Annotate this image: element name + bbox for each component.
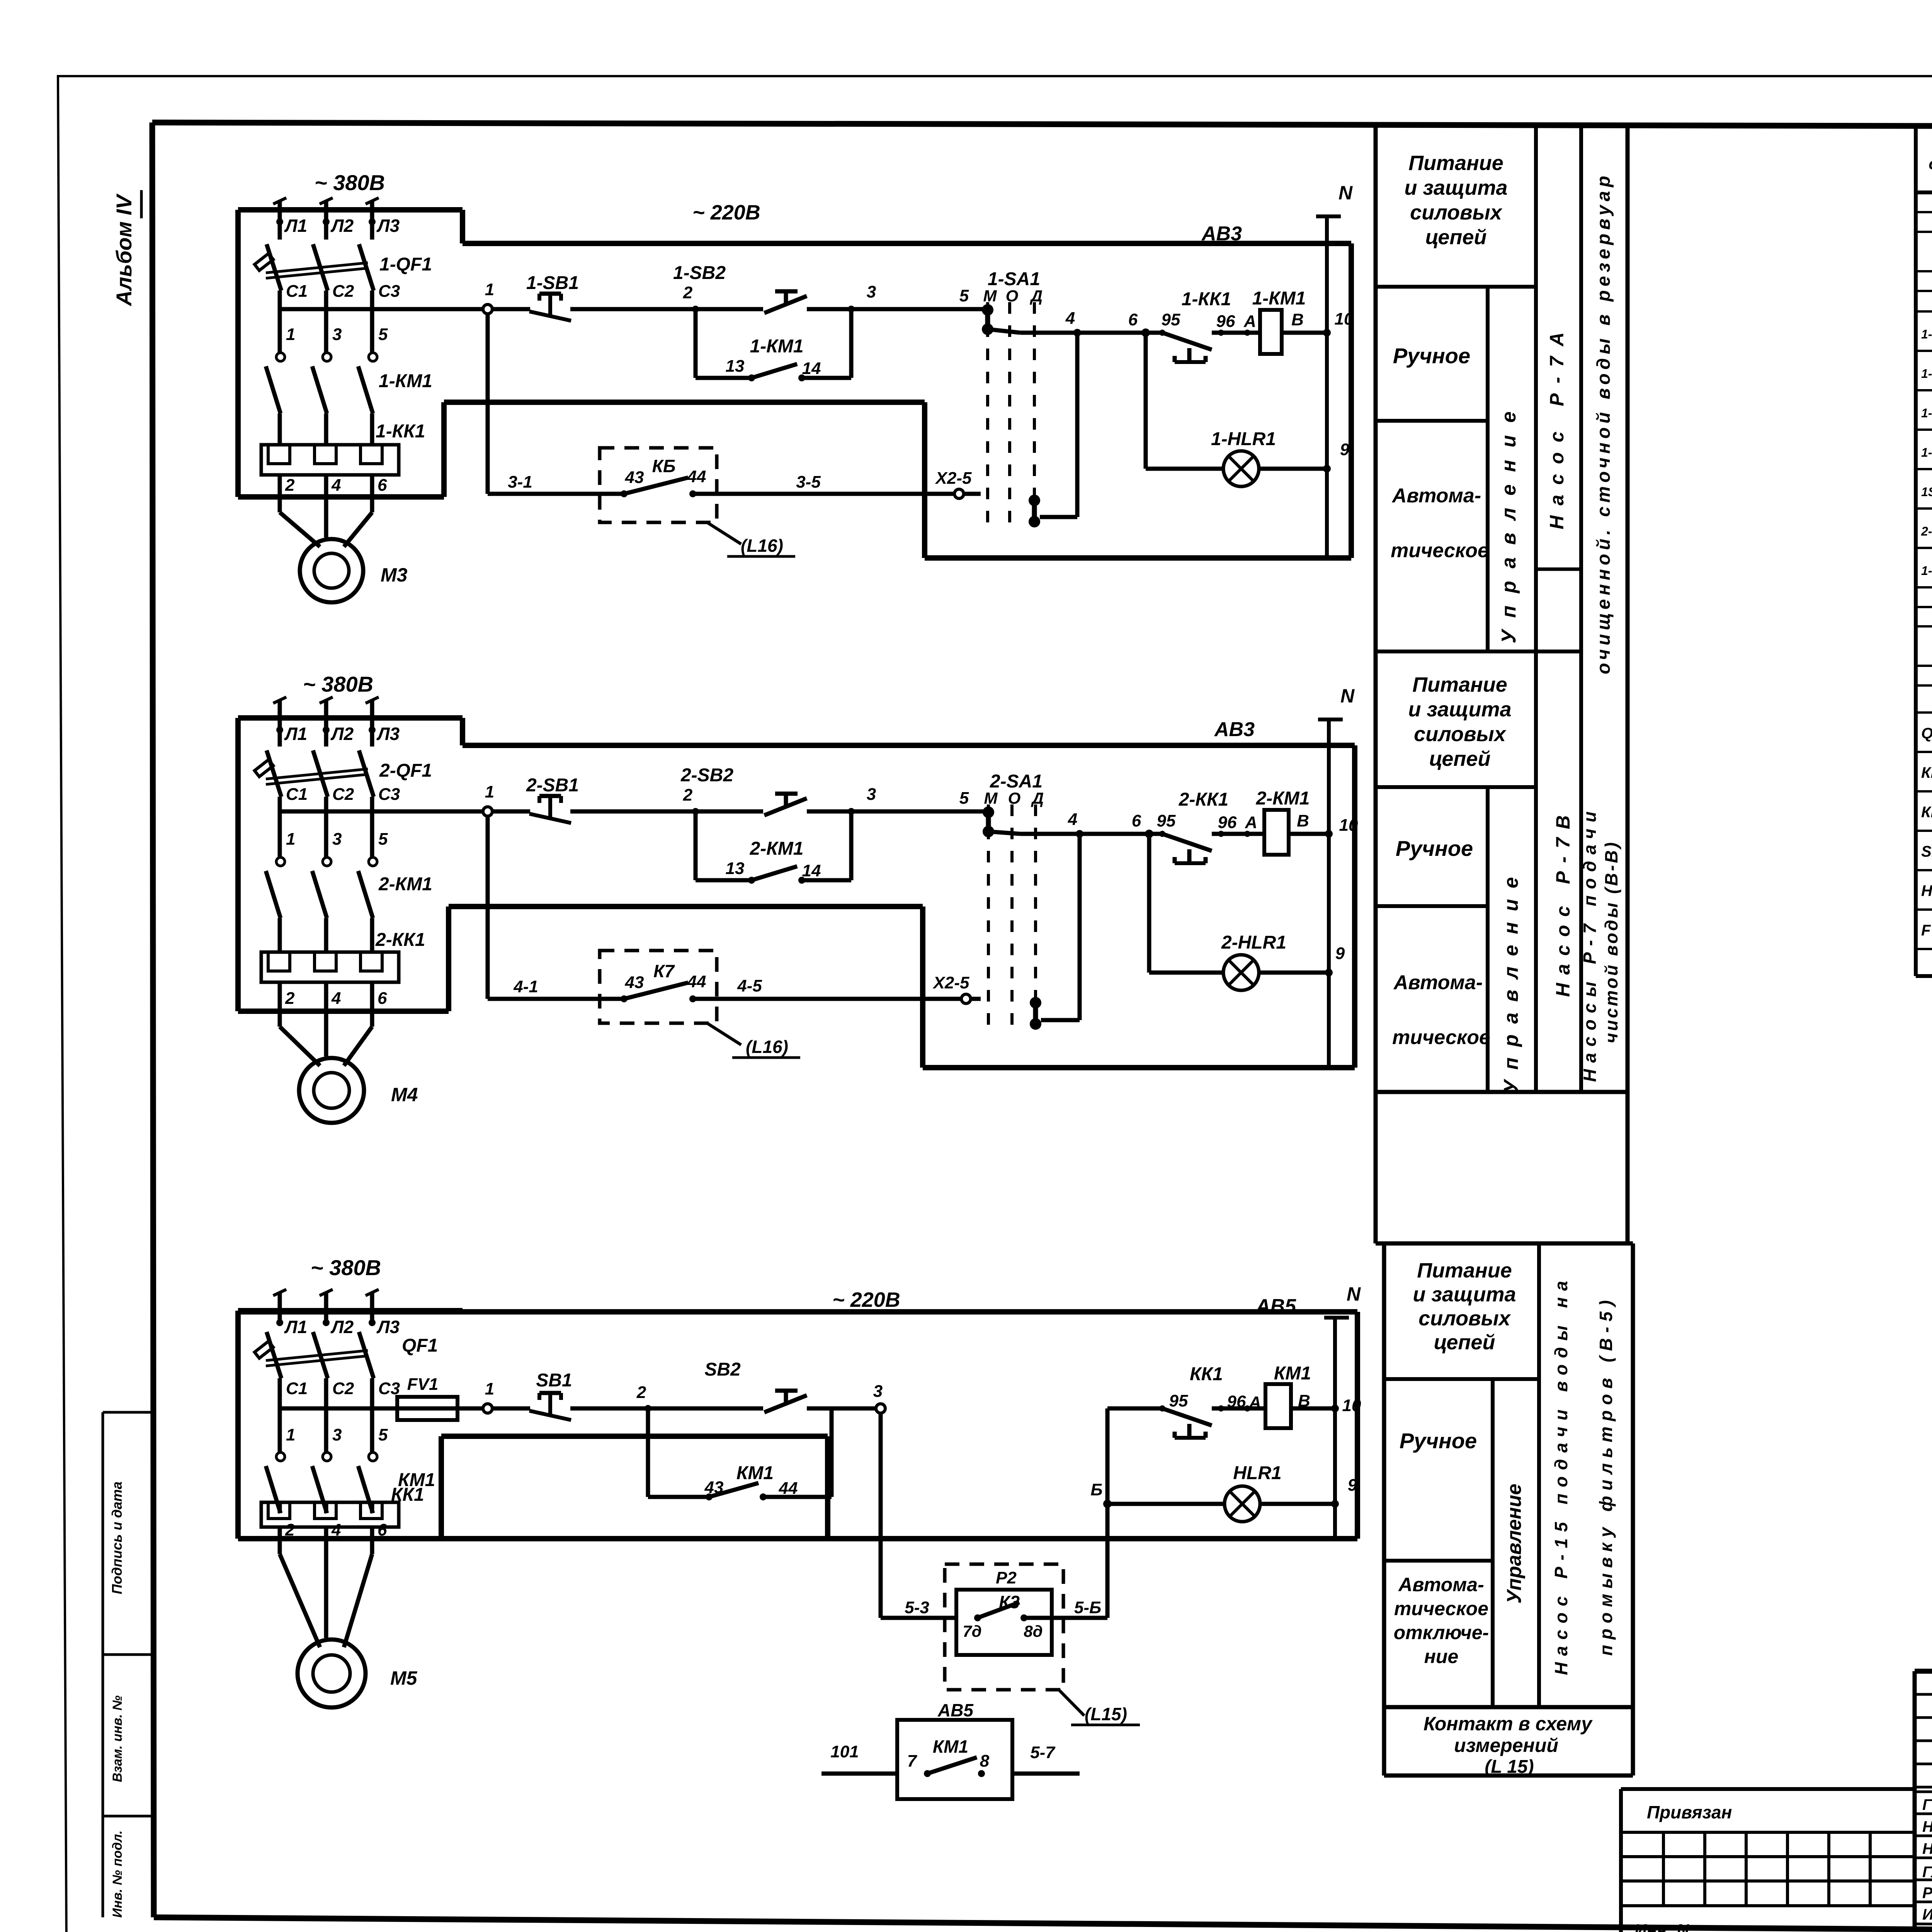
svg-text:Р2: Р2 <box>996 1568 1017 1587</box>
svg-text:тическое: тическое <box>1391 539 1489 562</box>
svg-text:6: 6 <box>378 1520 387 1539</box>
svg-text:5: 5 <box>378 830 388 849</box>
svg-text:3: 3 <box>332 830 342 849</box>
svg-text:С2: С2 <box>332 785 354 804</box>
svg-text:Питание: Питание <box>1417 1259 1512 1282</box>
svg-text:А: А <box>1243 312 1256 331</box>
svg-text:Инв. № подл.: Инв. № подл. <box>110 1830 125 1918</box>
svg-text:2-QF1: 2-QF1 <box>379 760 432 781</box>
svg-text:силовых: силовых <box>1418 1307 1511 1330</box>
svg-text:АВ5: АВ5 <box>1255 1295 1296 1318</box>
svg-text:1-SВ1: 1-SВ1 <box>526 273 579 293</box>
svg-text:5: 5 <box>378 325 388 344</box>
svg-text:44: 44 <box>687 467 706 486</box>
svg-text:9: 9 <box>1348 1476 1357 1495</box>
svg-text:ГИП: ГИП <box>1922 1796 1932 1813</box>
svg-text:95: 95 <box>1169 1391 1188 1410</box>
svg-text:Л2: Л2 <box>330 1317 354 1337</box>
svg-text:3: 3 <box>332 1425 342 1444</box>
svg-text:Ручное: Ручное <box>1396 836 1473 861</box>
svg-text:~ 380В: ~ 380В <box>315 170 385 195</box>
svg-text:5: 5 <box>378 1425 388 1444</box>
svg-text:N: N <box>1347 1283 1361 1305</box>
svg-text:Л3: Л3 <box>376 216 400 236</box>
svg-text:13: 13 <box>726 357 745 376</box>
svg-text:96: 96 <box>1216 312 1235 331</box>
svg-text:6: 6 <box>378 989 387 1008</box>
svg-text:Насос Р-15 подачи воды на: Насос Р-15 подачи воды на <box>1551 1281 1571 1675</box>
svg-text:1: 1 <box>485 782 494 801</box>
svg-text:1SВ1,1-SВ2: 1SВ1,1-SВ2 <box>1921 485 1932 499</box>
svg-text:Л1: Л1 <box>284 724 307 744</box>
svg-text:Х2-5: Х2-5 <box>935 469 972 488</box>
svg-text:А: А <box>1245 813 1257 832</box>
svg-text:С1: С1 <box>286 785 308 804</box>
svg-text:силовых: силовых <box>1414 723 1507 746</box>
svg-text:НLR1: НLR1 <box>1921 883 1932 900</box>
svg-text:N: N <box>1338 182 1353 204</box>
svg-text:КМ1: КМ1 <box>736 1463 774 1483</box>
svg-text:14: 14 <box>802 861 821 880</box>
svg-text:QF1: QF1 <box>1921 725 1932 742</box>
svg-text:С1: С1 <box>286 282 308 301</box>
svg-text:Взам. инв. №: Взам. инв. № <box>110 1696 125 1782</box>
svg-text:1-QF1,2-QF1: 1-QF1,2-QF1 <box>1921 327 1932 341</box>
svg-text:О: О <box>1008 789 1021 807</box>
svg-text:4: 4 <box>1068 810 1077 829</box>
svg-text:В: В <box>1298 1391 1310 1410</box>
svg-text:Контакт в схему: Контакт в схему <box>1423 1713 1593 1735</box>
svg-text:силовых: силовых <box>1410 201 1503 224</box>
svg-text:HLR1: HLR1 <box>1233 1463 1281 1483</box>
svg-text:(L15): (L15) <box>1085 1704 1127 1724</box>
svg-text:6: 6 <box>378 476 387 495</box>
svg-text:1: 1 <box>286 1425 295 1444</box>
svg-text:~ 380В: ~ 380В <box>311 1255 381 1280</box>
svg-text:2: 2 <box>285 1520 295 1539</box>
svg-text:8: 8 <box>980 1752 990 1770</box>
svg-text:С2: С2 <box>332 282 354 301</box>
svg-text:Ручное: Ручное <box>1393 344 1470 368</box>
svg-text:Подпись и дата: Подпись и дата <box>109 1481 125 1594</box>
svg-text:9: 9 <box>1335 944 1345 963</box>
svg-text:2-SВ1,2-SВ2: 2-SВ1,2-SВ2 <box>1921 524 1932 538</box>
svg-text:10: 10 <box>1335 310 1354 328</box>
svg-text:1-SВ2: 1-SВ2 <box>673 263 726 283</box>
svg-text:отключе-: отключе- <box>1394 1622 1489 1643</box>
svg-text:Альбом IV: Альбом IV <box>112 193 136 307</box>
svg-text:5: 5 <box>959 286 969 305</box>
svg-text:М3: М3 <box>381 564 408 586</box>
svg-text:КБ: КБ <box>652 456 676 476</box>
svg-text:SВ1, SВ2: SВ1, SВ2 <box>1921 843 1932 860</box>
svg-text:О: О <box>1006 287 1019 305</box>
svg-text:АВ3: АВ3 <box>1201 223 1242 245</box>
svg-text:4-1: 4-1 <box>513 977 538 996</box>
svg-text:14: 14 <box>802 359 821 378</box>
svg-text:43: 43 <box>625 468 644 487</box>
svg-text:10: 10 <box>1342 1396 1361 1415</box>
svg-text:13: 13 <box>726 859 745 878</box>
svg-text:С1: С1 <box>286 1379 308 1398</box>
svg-text:С3: С3 <box>378 785 400 804</box>
svg-text:2-КМ1: 2-КМ1 <box>1256 788 1310 809</box>
svg-text:АВ3: АВ3 <box>1214 718 1255 741</box>
svg-text:обозна-: обозна- <box>1929 155 1932 173</box>
svg-text:Автома-: Автома- <box>1393 971 1483 994</box>
svg-text:Нач.отд.: Нач.отд. <box>1922 1818 1932 1835</box>
svg-text:1-QF1: 1-QF1 <box>379 254 432 275</box>
svg-text:6: 6 <box>1128 310 1138 329</box>
svg-text:Л1: Л1 <box>284 1317 307 1337</box>
svg-text:4-5: 4-5 <box>737 976 762 995</box>
svg-text:тическое: тическое <box>1392 1026 1490 1049</box>
svg-text:(L16): (L16) <box>741 536 783 556</box>
svg-text:4: 4 <box>331 476 341 495</box>
svg-text:Питание: Питание <box>1408 151 1503 175</box>
svg-text:1-КК1,2-КК1: 1-КК1,2-КК1 <box>1921 406 1932 420</box>
svg-text:М4: М4 <box>391 1084 418 1105</box>
svg-text:1-КМ1,2-КМ1: 1-КМ1,2-КМ1 <box>1921 367 1932 381</box>
svg-text:3-1: 3-1 <box>508 473 532 492</box>
svg-text:43: 43 <box>625 973 644 992</box>
svg-text:1: 1 <box>485 1379 494 1398</box>
svg-text:тическое: тическое <box>1394 1598 1488 1619</box>
svg-text:2-SВ2: 2-SВ2 <box>680 765 733 786</box>
svg-text:Управление: Управление <box>1503 1484 1526 1604</box>
svg-text:1: 1 <box>286 325 295 344</box>
svg-text:Л3: Л3 <box>376 724 400 744</box>
svg-text:С2: С2 <box>332 1379 354 1398</box>
svg-text:(L16): (L16) <box>746 1037 788 1057</box>
svg-text:КК1: КК1 <box>1921 804 1932 821</box>
svg-text:10: 10 <box>1339 816 1358 835</box>
svg-text:3: 3 <box>867 282 876 301</box>
svg-text:КК1: КК1 <box>1190 1364 1223 1384</box>
svg-text:1-КМ1: 1-КМ1 <box>750 336 804 357</box>
svg-text:М5: М5 <box>390 1667 418 1689</box>
svg-text:Л1: Л1 <box>284 216 307 236</box>
svg-text:1-НLR1,2-НLR1: 1-НLR1,2-НLR1 <box>1921 564 1932 578</box>
svg-text:44: 44 <box>687 972 706 991</box>
svg-text:КМ1: КМ1 <box>933 1736 968 1757</box>
svg-text:95: 95 <box>1157 811 1176 830</box>
svg-text:QF1: QF1 <box>402 1335 438 1356</box>
svg-text:2-SВ1: 2-SВ1 <box>526 775 579 796</box>
svg-text:3: 3 <box>867 785 876 804</box>
svg-text:и защита: и защита <box>1413 1283 1516 1306</box>
svg-text:SВ2: SВ2 <box>704 1359 741 1380</box>
svg-text:5-7: 5-7 <box>1030 1743 1056 1762</box>
svg-text:Б: Б <box>1090 1480 1102 1499</box>
svg-text:Л2: Л2 <box>330 724 354 744</box>
svg-text:1: 1 <box>485 280 494 299</box>
svg-text:95: 95 <box>1162 310 1180 329</box>
svg-text:цепей: цепей <box>1425 226 1487 249</box>
svg-text:101: 101 <box>830 1742 859 1761</box>
svg-text:и защита: и защита <box>1408 698 1511 721</box>
svg-text:В: В <box>1297 811 1309 830</box>
svg-text:8д: 8д <box>1024 1622 1043 1640</box>
svg-text:Автома-: Автома- <box>1391 485 1481 507</box>
svg-text:Л3: Л3 <box>376 1317 400 1337</box>
svg-text:Питание: Питание <box>1412 673 1507 696</box>
svg-text:Рук.гр.: Рук.гр. <box>1922 1884 1932 1901</box>
svg-text:3: 3 <box>873 1382 883 1401</box>
svg-text:6: 6 <box>1132 811 1141 830</box>
svg-text:Д: Д <box>1030 287 1043 305</box>
svg-text:2-HLR1: 2-HLR1 <box>1221 932 1286 953</box>
svg-text:4: 4 <box>331 989 341 1008</box>
svg-text:2: 2 <box>285 989 295 1008</box>
svg-text:М: М <box>984 789 998 807</box>
svg-text:1: 1 <box>286 830 295 849</box>
svg-text:КМ1: КМ1 <box>1274 1363 1311 1384</box>
svg-text:Х2-5: Х2-5 <box>932 973 969 992</box>
svg-text:~ 220В: ~ 220В <box>832 1288 900 1311</box>
svg-text:Инженер: Инженер <box>1922 1906 1932 1923</box>
svg-text:~ 220В: ~ 220В <box>692 201 760 224</box>
svg-text:2: 2 <box>636 1383 646 1402</box>
svg-text:N: N <box>1340 685 1355 707</box>
svg-text:Л2: Л2 <box>330 216 354 236</box>
svg-text:7д: 7д <box>963 1622 981 1640</box>
svg-text:Д: Д <box>1031 789 1044 807</box>
svg-text:2: 2 <box>683 786 693 804</box>
svg-text:2-КМ1: 2-КМ1 <box>378 874 432 895</box>
svg-text:SВ1: SВ1 <box>536 1370 572 1391</box>
svg-text:96: 96 <box>1218 813 1237 832</box>
svg-text:Н.контр.: Н.контр. <box>1922 1840 1932 1857</box>
svg-text:Инв. N: Инв. N <box>1634 1921 1689 1932</box>
svg-text:2-КК1: 2-КК1 <box>375 930 425 950</box>
svg-text:9: 9 <box>1340 440 1350 459</box>
svg-text:FV1: FV1 <box>407 1375 439 1394</box>
svg-text:1-КМ1: 1-КМ1 <box>379 371 432 391</box>
svg-text:(L 15): (L 15) <box>1485 1757 1534 1777</box>
svg-text:1-КМ1: 1-КМ1 <box>1252 288 1306 309</box>
svg-text:~ 380В: ~ 380В <box>303 672 373 696</box>
svg-text:5-Б: 5-Б <box>1074 1598 1101 1617</box>
svg-text:цепей: цепей <box>1429 747 1491 770</box>
svg-text:М: М <box>983 287 997 305</box>
svg-text:2-КМ1: 2-КМ1 <box>750 838 804 859</box>
svg-text:Автома-: Автома- <box>1398 1574 1484 1595</box>
svg-text:Насос Р-7В: Насос Р-7В <box>1552 815 1574 997</box>
svg-text:44: 44 <box>779 1479 798 1498</box>
svg-text:Привязан: Привязан <box>1647 1802 1732 1822</box>
svg-text:4: 4 <box>1065 309 1075 328</box>
svg-text:ние: ние <box>1424 1646 1459 1667</box>
svg-text:2: 2 <box>683 283 693 302</box>
svg-text:7: 7 <box>907 1752 918 1770</box>
svg-text:К7: К7 <box>653 961 675 981</box>
svg-text:FV1: FV1 <box>1921 922 1932 939</box>
svg-text:3-5: 3-5 <box>796 473 821 492</box>
svg-text:5-3: 5-3 <box>905 1598 929 1617</box>
svg-text:1-КК1: 1-КК1 <box>1182 289 1231 310</box>
svg-text:1-HLR1: 1-HLR1 <box>1211 429 1276 449</box>
svg-text:5: 5 <box>959 789 969 808</box>
svg-text:4: 4 <box>331 1520 341 1539</box>
svg-text:1-SА1,2-SА1: 1-SА1,2-SА1 <box>1921 446 1932 459</box>
svg-text:КМ1: КМ1 <box>1921 764 1932 781</box>
svg-text:Гл.спец: Гл.спец <box>1922 1864 1932 1881</box>
svg-text:43: 43 <box>704 1478 724 1497</box>
svg-text:АВ5: АВ5 <box>937 1700 974 1720</box>
svg-text:1-КК1: 1-КК1 <box>376 421 425 442</box>
svg-text:2: 2 <box>285 476 295 495</box>
svg-text:3: 3 <box>332 325 342 344</box>
svg-text:цепей: цепей <box>1434 1331 1495 1354</box>
svg-text:С3: С3 <box>378 282 400 301</box>
svg-text:измерений: измерений <box>1454 1735 1558 1756</box>
svg-text:и защита: и защита <box>1404 176 1507 199</box>
svg-text:В: В <box>1291 310 1304 329</box>
svg-text:Ручное: Ручное <box>1400 1429 1477 1453</box>
svg-text:2-КК1: 2-КК1 <box>1179 789 1228 810</box>
